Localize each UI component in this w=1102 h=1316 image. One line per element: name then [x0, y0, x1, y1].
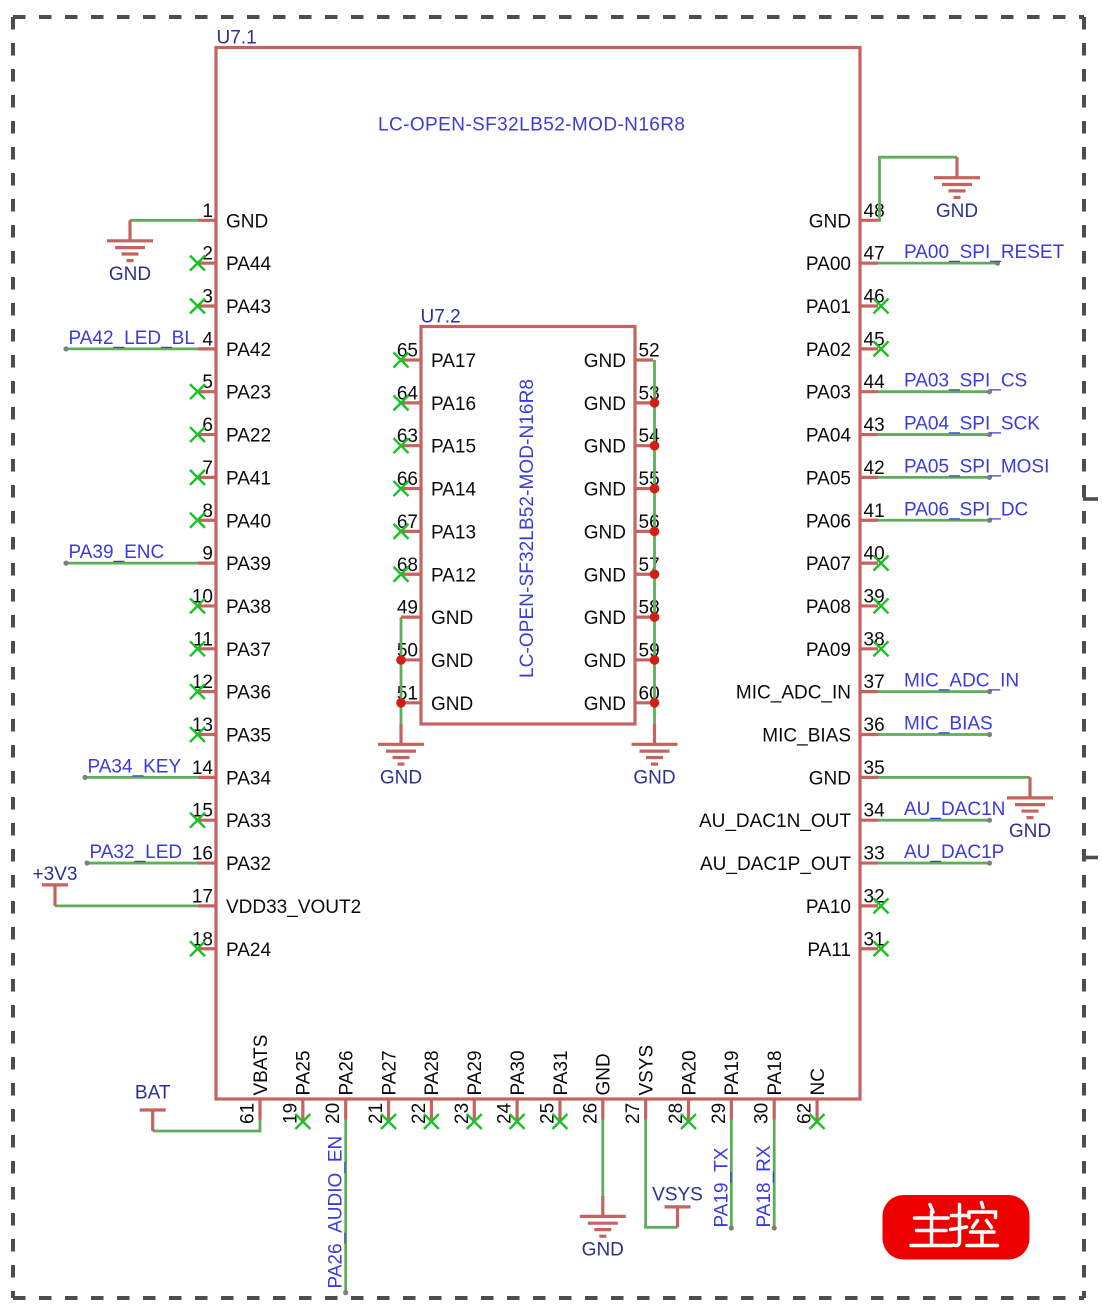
wire net PA06_SPI_DC — [878, 518, 992, 523]
svg-text:MIC_BIAS: MIC_BIAS — [762, 726, 851, 747]
svg-text:GND: GND — [809, 211, 851, 232]
svg-text:AU_DAC1N_OUT: AU_DAC1N_OUT — [699, 811, 851, 832]
svg-text:MIC_ADC_IN: MIC_ADC_IN — [736, 683, 851, 704]
U7.1 pin 23 PA29 — [452, 1050, 486, 1129]
svg-text:PA34: PA34 — [226, 768, 272, 789]
svg-text:43: 43 — [864, 415, 885, 436]
svg-text:PA03: PA03 — [806, 383, 851, 404]
U7.2 pin 50 GND — [397, 640, 473, 672]
svg-text:PA41: PA41 — [226, 468, 271, 489]
U7.1 pin 36 MIC_BIAS — [762, 715, 884, 747]
svg-text:AU_DAC1N: AU_DAC1N — [904, 799, 1005, 820]
net label MIC_BIAS — [904, 714, 993, 735]
net label AU_DAC1P — [904, 842, 1004, 863]
U7.2 pin 51 GND — [397, 683, 473, 715]
ground flag GND right — [1007, 777, 1053, 842]
svg-text:49: 49 — [397, 598, 418, 619]
svg-text:PA33: PA33 — [226, 811, 271, 832]
U7.2 pin 68 PA12 — [394, 555, 477, 587]
svg-text:PA26: PA26 — [337, 1050, 358, 1095]
svg-text:GND: GND — [809, 768, 851, 789]
U7.1 pin 3 PA43 — [190, 287, 271, 319]
U7.1 pin 44 PA03 — [806, 372, 885, 404]
svg-text:GND: GND — [582, 1240, 624, 1261]
net label PA26_AUDIO_EN — [326, 1136, 347, 1289]
svg-text:GND: GND — [431, 694, 473, 715]
U7.1 pin 28 PA20 — [666, 1050, 700, 1129]
net label AU_DAC1N — [904, 799, 1005, 820]
svg-text:7: 7 — [202, 458, 213, 479]
U7.1 pin 40 PA07 — [806, 544, 889, 576]
svg-text:VDD33_VOUT2: VDD33_VOUT2 — [226, 897, 361, 918]
power flag BAT — [135, 1083, 171, 1131]
U7.1 part name LC-OPEN-SF32LB52-MOD-N16R8 — [378, 115, 685, 136]
svg-text:GND: GND — [431, 608, 473, 629]
svg-text:LC-OPEN-SF32LB52-MOD-N16R8: LC-OPEN-SF32LB52-MOD-N16R8 — [378, 115, 685, 136]
U7.2 pin 66 PA14 — [394, 469, 477, 501]
svg-text:2: 2 — [202, 244, 213, 265]
svg-text:16: 16 — [192, 844, 213, 865]
svg-text:62: 62 — [795, 1103, 816, 1124]
U7.1 pin 11 PA37 — [190, 629, 271, 661]
svg-text:VSYS: VSYS — [636, 1045, 657, 1096]
svg-text:PA23: PA23 — [226, 383, 271, 404]
wire pin35 to GND — [878, 776, 1030, 779]
op-module U7.2 body — [421, 327, 635, 725]
svg-text:30: 30 — [752, 1103, 773, 1124]
svg-text:PA25: PA25 — [294, 1050, 315, 1095]
U7.1 pin 27 VSYS — [623, 1045, 657, 1124]
U7.1 pin 33 AU_DAC1P_OUT — [700, 844, 885, 876]
svg-text:3: 3 — [202, 287, 213, 308]
U7.1 pin 22 PA28 — [409, 1050, 443, 1129]
wire net PA42_LED_BL — [63, 346, 198, 351]
svg-text:PA44: PA44 — [226, 254, 272, 275]
U7.2 pin 58 GND — [584, 598, 660, 630]
svg-text:PA05: PA05 — [806, 468, 851, 489]
svg-text:GND: GND — [584, 651, 626, 672]
U7.1 pin 43 PA04 — [806, 415, 885, 447]
U7.1 pin 47 PA00 — [806, 244, 885, 276]
U7.1 pin 61 VBATS — [238, 1035, 272, 1124]
svg-text:47: 47 — [864, 244, 885, 265]
svg-text:48: 48 — [864, 201, 885, 222]
svg-text:25: 25 — [537, 1103, 558, 1124]
junction pin 53 — [650, 398, 660, 408]
svg-text:44: 44 — [864, 372, 886, 393]
wire net PA39_ENC — [63, 561, 198, 566]
U7.2 pin 64 PA16 — [394, 383, 477, 415]
sheet border tick right upper — [1083, 497, 1098, 501]
svg-text:PA37: PA37 — [226, 640, 271, 661]
svg-text:PA39_ENC: PA39_ENC — [69, 542, 165, 563]
wire net PA00_SPI_RESET — [878, 261, 1000, 266]
junction pin 54 — [650, 441, 660, 451]
U7.1 pin 21 PA27 — [366, 1050, 400, 1129]
U7.1 pin 1 GND — [198, 201, 268, 233]
wire net PA26_AUDIO_EN — [343, 1120, 348, 1296]
svg-text:PA24: PA24 — [226, 940, 272, 961]
U7.1 pin 25 PA31 — [537, 1050, 571, 1129]
svg-text:GND: GND — [594, 1053, 615, 1095]
svg-text:U7.1: U7.1 — [217, 28, 257, 49]
svg-text:22: 22 — [409, 1103, 430, 1124]
svg-text:PA13: PA13 — [431, 522, 476, 543]
svg-text:26: 26 — [580, 1103, 601, 1124]
svg-text:PA01: PA01 — [806, 297, 851, 318]
svg-text:5: 5 — [202, 372, 213, 393]
wire net PA04_SPI_SCK — [878, 432, 992, 437]
svg-text:PA17: PA17 — [431, 351, 476, 372]
svg-text:+3V3: +3V3 — [33, 864, 78, 885]
svg-text:GND: GND — [431, 651, 473, 672]
svg-text:28: 28 — [666, 1103, 687, 1124]
U7.1 pin 45 PA02 — [806, 329, 889, 361]
op-module U7.1 body — [216, 48, 860, 1100]
svg-text:GND: GND — [633, 768, 675, 789]
svg-text:36: 36 — [864, 715, 885, 736]
junction pin 58 — [650, 612, 660, 622]
svg-text:29: 29 — [709, 1103, 730, 1124]
svg-text:BAT: BAT — [135, 1083, 171, 1104]
svg-text:GND: GND — [226, 211, 268, 232]
U7.1 pin 42 PA05 — [806, 458, 885, 490]
U7.1 pin 12 PA36 — [190, 672, 271, 704]
U7.1 pin 14 PA34 — [192, 758, 272, 790]
net label PA06_SPI_DC — [904, 499, 1028, 520]
U7.2 pin 65 PA17 — [394, 341, 477, 373]
svg-text:PA29: PA29 — [465, 1050, 486, 1095]
wire pin1 to GND — [130, 219, 198, 222]
wire net AU_DAC1N — [878, 818, 992, 823]
svg-text:GND: GND — [936, 201, 978, 222]
net label PA04_SPI_SCK — [904, 414, 1040, 435]
svg-text:PA20: PA20 — [679, 1050, 700, 1095]
svg-text:6: 6 — [202, 415, 213, 436]
svg-text:GND: GND — [584, 480, 626, 501]
U7.1 pin 17 VDD33_VOUT2 — [192, 886, 361, 918]
svg-text:52: 52 — [639, 341, 660, 362]
U7.1 pin 13 PA35 — [190, 715, 271, 747]
U7.1 pin 31 PA11 — [807, 929, 888, 961]
svg-text:GND: GND — [584, 394, 626, 415]
U7.1 pin 20 PA26 — [323, 1050, 357, 1124]
svg-text:PA28: PA28 — [422, 1050, 443, 1095]
svg-text:33: 33 — [864, 844, 885, 865]
U7.1 pin 46 PA01 — [806, 287, 889, 319]
wire net MIC_ADC_IN — [878, 689, 992, 694]
svg-text:20: 20 — [323, 1103, 344, 1124]
svg-text:PA39: PA39 — [226, 554, 271, 575]
svg-text:PA32_LED: PA32_LED — [90, 842, 183, 863]
U7.1 pin 24 PA30 — [495, 1050, 529, 1129]
wire net PA18_RX — [772, 1120, 777, 1231]
junction pin 57 — [650, 569, 660, 579]
junction pin 51 — [396, 698, 406, 708]
net label PA39_ENC — [69, 542, 165, 563]
svg-text:PA12: PA12 — [431, 565, 476, 586]
net label MIC_ADC_IN — [904, 671, 1019, 692]
wire net PA05_SPI_MOSI — [878, 475, 992, 480]
wire net PA03_SPI_CS — [878, 389, 992, 394]
svg-text:PA00: PA00 — [806, 254, 851, 275]
U7.1 pin 38 PA09 — [806, 629, 889, 661]
svg-text:NC: NC — [808, 1068, 829, 1095]
svg-text:PA06_SPI_DC: PA06_SPI_DC — [904, 499, 1028, 520]
U7.2 part name vertical LC-OPEN-SF32LB52-MOD-N16R8 — [517, 379, 538, 678]
U7.1 reference designator — [217, 28, 257, 49]
svg-text:PA18: PA18 — [765, 1050, 786, 1095]
svg-text:GND: GND — [584, 694, 626, 715]
svg-text:PA35: PA35 — [226, 726, 271, 747]
U7.1 pin 48 GND — [809, 201, 885, 233]
svg-text:9: 9 — [202, 544, 213, 565]
svg-text:PA14: PA14 — [431, 480, 477, 501]
svg-text:GND: GND — [584, 351, 626, 372]
power flag +3V3 — [33, 864, 78, 906]
svg-text:LC-OPEN-SF32LB52-MOD-N16R8: LC-OPEN-SF32LB52-MOD-N16R8 — [517, 379, 538, 678]
svg-text:8: 8 — [202, 501, 213, 522]
svg-text:PA00_SPI_RESET: PA00_SPI_RESET — [904, 242, 1065, 263]
svg-text:GND: GND — [109, 264, 151, 285]
svg-text:PA15: PA15 — [431, 437, 476, 458]
svg-text:PA31: PA31 — [551, 1050, 572, 1095]
wire net MIC_BIAS — [878, 732, 992, 737]
sheet border tick right lower — [1083, 856, 1098, 860]
U7.1 pin 16 PA32 — [192, 844, 271, 876]
svg-text:VSYS: VSYS — [652, 1185, 703, 1206]
U7.1 pin 4 PA42 — [198, 329, 271, 361]
svg-text:37: 37 — [864, 672, 885, 693]
U7.1 pin 34 AU_DAC1N_OUT — [699, 801, 885, 833]
U7.1 pin 39 PA08 — [806, 586, 889, 618]
svg-text:27: 27 — [623, 1103, 644, 1124]
power flag VSYS — [652, 1185, 703, 1228]
svg-text:17: 17 — [192, 886, 213, 907]
svg-text:PA22: PA22 — [226, 426, 271, 447]
U7.1 pin 32 PA10 — [806, 886, 889, 918]
wire net PA34_KEY — [82, 775, 198, 780]
svg-text:PA42_LED_BL: PA42_LED_BL — [69, 328, 195, 349]
svg-text:PA36: PA36 — [226, 683, 271, 704]
wire pin17 to +3V3 — [55, 905, 198, 908]
wire pin27 to VSYS — [646, 1120, 678, 1228]
junction pin 56 — [650, 527, 660, 537]
svg-text:42: 42 — [864, 458, 885, 479]
svg-text:PA38: PA38 — [226, 597, 271, 618]
U7.1 pin 7 PA41 — [190, 458, 271, 490]
svg-text:GND: GND — [584, 522, 626, 543]
wire pin48 to GND — [878, 157, 957, 220]
svg-text:21: 21 — [366, 1103, 387, 1124]
svg-text:PA06: PA06 — [806, 511, 851, 532]
U7.1 pin 29 PA19 — [709, 1050, 743, 1124]
U7.1 pin 37 MIC_ADC_IN — [736, 672, 885, 704]
U7.1 pin 41 PA06 — [806, 501, 885, 533]
svg-text:61: 61 — [238, 1103, 259, 1124]
svg-text:PA10: PA10 — [806, 897, 851, 918]
U7.1 pin 15 PA33 — [190, 801, 271, 833]
U7.1 pin 10 PA38 — [190, 586, 271, 618]
net label PA42_LED_BL — [69, 328, 195, 349]
U7.2 pin 54 GND — [584, 426, 660, 458]
svg-text:PA19: PA19 — [722, 1050, 743, 1095]
U7.1 pin 35 GND — [809, 758, 885, 790]
svg-text:PA27: PA27 — [379, 1050, 400, 1095]
U7.1 pin 18 PA24 — [190, 929, 272, 961]
ground flag GND top-left — [107, 220, 153, 285]
svg-text:PA08: PA08 — [806, 597, 851, 618]
net label PA34_KEY — [88, 756, 182, 777]
svg-text:GND: GND — [584, 608, 626, 629]
svg-text:AU_DAC1P: AU_DAC1P — [904, 842, 1004, 863]
svg-text:23: 23 — [452, 1103, 473, 1124]
U7.1 pin 9 PA39 — [198, 544, 271, 576]
svg-text:PA42: PA42 — [226, 340, 271, 361]
wire net PA19_TX — [729, 1120, 734, 1231]
svg-text:GND: GND — [584, 437, 626, 458]
svg-text:GND: GND — [1009, 821, 1051, 842]
U7.2 pin 53 GND — [584, 383, 660, 415]
wire net PA32_LED — [84, 860, 198, 865]
svg-text:35: 35 — [864, 758, 885, 779]
svg-text:PA30: PA30 — [508, 1050, 529, 1095]
U7.1 pin 5 PA23 — [190, 372, 271, 404]
svg-text:PA05_SPI_MOSI: PA05_SPI_MOSI — [904, 456, 1049, 477]
svg-text:MIC_BIAS: MIC_BIAS — [904, 714, 993, 735]
junction pin 55 — [650, 484, 660, 494]
svg-text:PA19_TX: PA19_TX — [711, 1147, 732, 1227]
svg-text:PA09: PA09 — [806, 640, 851, 661]
svg-text:PA34_KEY: PA34_KEY — [88, 756, 182, 777]
ground flag GND below U7.2 right — [632, 724, 678, 789]
svg-text:PA32: PA32 — [226, 854, 271, 875]
U7.1 pin 19 PA25 — [280, 1050, 314, 1129]
U7.1 pin 26 GND — [580, 1053, 614, 1124]
svg-text:GND: GND — [380, 768, 422, 789]
net label PA19_TX — [711, 1147, 732, 1227]
svg-text:PA04: PA04 — [806, 426, 852, 447]
U7.2 pin 59 GND — [584, 640, 660, 672]
red badge main-control — [883, 1195, 1030, 1260]
svg-text:19: 19 — [280, 1103, 301, 1124]
ground flag GND bottom — [580, 1196, 626, 1261]
U7.1 pin 8 PA40 — [190, 501, 271, 533]
U7.2 pin 63 PA15 — [394, 426, 477, 458]
U7.2 pin 57 GND — [584, 555, 660, 587]
svg-text:4: 4 — [202, 329, 213, 350]
svg-text:GND: GND — [584, 565, 626, 586]
U7.2 pin 60 GND — [584, 683, 660, 715]
U7.2 pin 55 GND — [584, 469, 660, 501]
svg-text:PA16: PA16 — [431, 394, 476, 415]
wire net AU_DAC1P — [878, 860, 992, 865]
svg-text:14: 14 — [192, 758, 214, 779]
junction pin 59 — [650, 655, 660, 665]
svg-text:PA04_SPI_SCK: PA04_SPI_SCK — [904, 414, 1040, 435]
wire U7.2 left GND bus — [400, 617, 403, 724]
net label PA05_SPI_MOSI — [904, 456, 1049, 477]
U7.2 pin 67 PA13 — [394, 512, 477, 544]
wire pin61 to BAT — [153, 1120, 260, 1132]
svg-text:AU_DAC1P_OUT: AU_DAC1P_OUT — [700, 854, 851, 875]
net label PA32_LED — [90, 842, 183, 863]
U7.1 pin 6 PA22 — [190, 415, 271, 447]
U7.1 pin 2 PA44 — [190, 244, 272, 276]
ground flag GND top-right — [934, 157, 980, 222]
svg-text:34: 34 — [864, 801, 886, 822]
U7.1 pin 30 PA18 — [752, 1050, 786, 1124]
svg-text:PA11: PA11 — [807, 940, 851, 961]
wire pin26 to GND — [601, 1120, 604, 1197]
U7.2 pin 56 GND — [584, 512, 660, 544]
U7.2 pin 52 GND — [584, 341, 660, 373]
svg-text:PA40: PA40 — [226, 511, 271, 532]
wire U7.2 right GND bus — [653, 360, 656, 724]
svg-text:PA18_RX: PA18_RX — [754, 1145, 775, 1227]
ground flag GND below U7.2 left — [378, 724, 424, 789]
svg-text:MIC_ADC_IN: MIC_ADC_IN — [904, 671, 1019, 692]
svg-text:PA26_AUDIO_EN: PA26_AUDIO_EN — [326, 1136, 347, 1289]
svg-text:PA43: PA43 — [226, 297, 271, 318]
svg-text:VBATS: VBATS — [251, 1035, 272, 1096]
net label PA18_RX — [754, 1145, 775, 1227]
svg-text:41: 41 — [864, 501, 885, 522]
junction pin 60 — [650, 698, 660, 708]
net label PA03_SPI_CS — [904, 371, 1027, 392]
svg-text:PA07: PA07 — [806, 554, 851, 575]
svg-text:1: 1 — [202, 201, 213, 222]
svg-text:PA02: PA02 — [806, 340, 851, 361]
svg-text:PA03_SPI_CS: PA03_SPI_CS — [904, 371, 1027, 392]
svg-text:U7.2: U7.2 — [421, 307, 461, 328]
U7.2 reference designator — [421, 307, 461, 328]
svg-text:24: 24 — [495, 1102, 516, 1124]
U7.2 pin 49 GND — [397, 598, 473, 630]
net label PA00_SPI_RESET — [904, 242, 1065, 263]
junction pin 50 — [396, 655, 406, 665]
U7.1 pin 62 NC — [795, 1068, 829, 1129]
